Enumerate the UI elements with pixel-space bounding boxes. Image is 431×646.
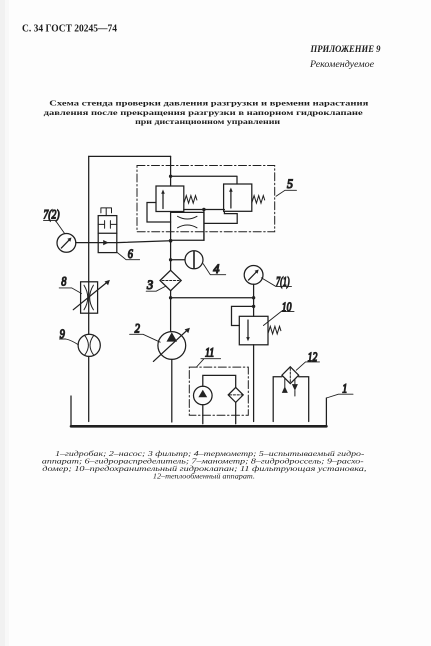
label 11 <box>197 345 221 367</box>
label 4 <box>203 262 226 276</box>
label 9 <box>60 327 79 345</box>
title line 2 <box>44 108 364 117</box>
svg-text:при дистанционном управлении: при дистанционном управлении <box>135 117 281 126</box>
svg-text:1: 1 <box>342 381 347 395</box>
directional valve 6 <box>98 208 117 253</box>
label 3 <box>146 278 166 292</box>
tested unit 5 boundary (dash-dot box) <box>137 166 275 232</box>
label 12 <box>296 351 319 371</box>
pressure gauge 7(1) <box>244 266 263 285</box>
wire: left column vertical <box>88 156 90 421</box>
pilot valve of unit 5 <box>224 184 252 211</box>
wire: gauge 7(1) drop <box>253 284 255 316</box>
svg-text:Рекомендуемое: Рекомендуемое <box>309 59 374 69</box>
label 7(2) <box>43 208 64 233</box>
filter of unit 11 <box>228 387 243 402</box>
svg-text:6: 6 <box>128 247 133 261</box>
wire: branch to pilot valve top <box>171 176 237 184</box>
svg-text:10: 10 <box>282 301 292 315</box>
label 8 <box>59 275 81 294</box>
coolant arrows of unit 12 <box>282 379 298 397</box>
pilot loop of valve 10 <box>232 306 254 325</box>
label 2 <box>130 320 161 342</box>
node: thermometer branch <box>169 258 172 261</box>
throttle box of unit 5 <box>171 212 204 240</box>
svg-text:11: 11 <box>205 345 214 359</box>
node: link junction <box>202 208 205 211</box>
caption line 1 <box>55 449 365 458</box>
svg-text:8: 8 <box>61 275 66 289</box>
pilot valve return path <box>204 210 237 241</box>
wire: valve-to-valve link <box>184 209 225 211</box>
wire: top horizontal from left column to unit 5 <box>89 155 171 157</box>
wire: main valve outlet down <box>170 212 172 241</box>
spring of main valve <box>184 196 197 204</box>
wire: horizontal to valve 10 column <box>171 297 254 299</box>
caption line 3 <box>42 464 366 473</box>
wire: unit 11 internal link <box>203 375 236 387</box>
pump of unit 11 <box>194 386 213 405</box>
heat exchanger unit 12 container <box>273 377 309 422</box>
wire: pump 2 suction <box>171 359 173 422</box>
throttle 8 <box>73 280 110 313</box>
node: pilot branch junction <box>252 305 255 308</box>
wire: main line down to filter <box>170 240 172 270</box>
main relief valve of unit 5 <box>156 186 184 212</box>
pressure gauge 7(2) <box>57 234 76 253</box>
node: unit5 top junction <box>169 175 172 178</box>
wire: valve 10 drain to tank <box>253 345 255 422</box>
header: page and GOST number <box>22 24 117 35</box>
wire: valve 6 to main line <box>117 241 171 243</box>
caption line 4 <box>153 472 255 481</box>
svg-text:давления после прекращения раз: давления после прекращения разгрузки в н… <box>44 108 364 117</box>
svg-text:12–теплообменный аппарат.: 12–теплообменный аппарат. <box>153 472 255 481</box>
label 6 <box>117 247 140 261</box>
header: appendix label <box>310 45 381 55</box>
caption line 2 <box>42 457 364 466</box>
wire: gauge 7(2) to valve 6 <box>76 242 98 244</box>
wire: filter to pump 2 <box>170 291 172 332</box>
title line 1 <box>49 99 369 108</box>
svg-text:7(2): 7(2) <box>43 208 59 222</box>
svg-text:5: 5 <box>287 177 293 192</box>
svg-text:С. 34 ГОСТ 20245—74: С. 34 ГОСТ 20245—74 <box>22 24 117 35</box>
scan left edge shading <box>0 0 9 646</box>
filter 3 <box>160 270 181 290</box>
svg-text:Схема стенда проверки давления: Схема стенда проверки давления разгрузки… <box>49 99 369 108</box>
pump 2 <box>153 328 190 362</box>
wire: branch to thermometer <box>171 259 185 261</box>
node: gauge line junction <box>169 296 172 299</box>
wire: drop into unit 5 <box>170 156 172 186</box>
svg-text:ПРИЛОЖЕНИЕ 9: ПРИЛОЖЕНИЕ 9 <box>310 45 381 55</box>
wire: unit 11 suction lines <box>203 402 236 423</box>
tank 1 <box>71 396 326 426</box>
svg-text:2: 2 <box>135 320 140 335</box>
label 5 <box>276 177 297 197</box>
thermometer 4 <box>185 251 203 269</box>
svg-text:7(1): 7(1) <box>276 275 290 289</box>
header: recommended label <box>309 59 374 69</box>
node: junction under throttle box <box>169 239 173 243</box>
svg-text:3: 3 <box>146 278 153 292</box>
label 1 <box>326 381 353 398</box>
label 7(1) <box>261 275 291 289</box>
spring of valve 10 <box>268 326 281 334</box>
pilot loop of main valve <box>147 203 171 223</box>
flow meter 9 <box>78 334 100 356</box>
heat exchanger 12 <box>282 367 299 384</box>
filter unit 11 boundary (dash-dot box) <box>189 367 248 415</box>
label 10 <box>263 301 294 326</box>
spring of pilot valve <box>252 196 265 204</box>
node: junction with horizontal <box>252 296 255 299</box>
relief valve 10 <box>239 316 268 345</box>
title line 3 <box>135 117 281 126</box>
svg-text:4: 4 <box>213 262 220 276</box>
throttle arcs <box>178 216 198 228</box>
